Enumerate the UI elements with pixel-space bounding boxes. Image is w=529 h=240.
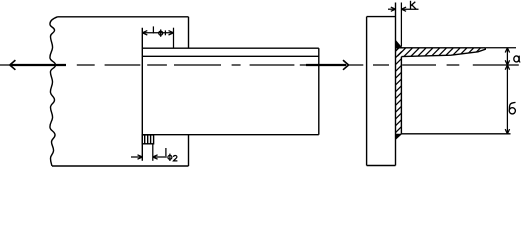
boss (hatched) at pipe bottom [142, 135, 153, 144]
dim a label [514, 56, 520, 62]
wall break line (wavy) [50, 17, 58, 166]
dim phi2 label l-phi-2 [166, 148, 172, 161]
wall bottom edge [52, 165, 189, 167]
pipe left end / extension line [141, 28, 143, 161]
wall top edge [58, 16, 189, 18]
branch pipe outer top line + extension to dim a [396, 47, 486, 49]
pipe bottom inner line [401, 133, 510, 135]
hatching of pipe top wall [387, 48, 494, 60]
dim phi1 extension line right [173, 28, 175, 49]
dim b label [509, 102, 515, 114]
hatching of pipe vertical wall [395, 44, 403, 140]
dim k arrows (outside) [388, 7, 419, 11]
axis arrow left [10, 60, 66, 70]
weld fillet bottom (filled) [396, 134, 403, 140]
wall right edge lower segment [188, 135, 190, 166]
pipe right end face [318, 48, 320, 135]
pipe bottom line [142, 134, 318, 136]
axis arrow right [306, 60, 363, 70]
dim phi1 label l-phi-1 [153, 26, 165, 36]
flange plate [367, 3, 396, 166]
dim k extension line [400, 3, 402, 47]
weld fillet top (filled) [396, 40, 403, 48]
wall right edge upper segment [188, 17, 190, 48]
dim phi1 dimension line with arrows [142, 31, 173, 35]
branch pipe inner (tapered) line [401, 48, 485, 57]
pipe inner top line [142, 55, 318, 57]
centreline (left view) [0, 64, 306, 66]
pipe vertical wall inner edge [400, 57, 402, 134]
dim phi2 arrows (outside) [131, 155, 167, 159]
pipe outer top line [142, 47, 318, 49]
dim k label [411, 1, 417, 10]
dim phi2 extension line right [152, 144, 154, 161]
dim a/b line with arrows [505, 48, 509, 134]
centreline (right view) [373, 64, 519, 66]
